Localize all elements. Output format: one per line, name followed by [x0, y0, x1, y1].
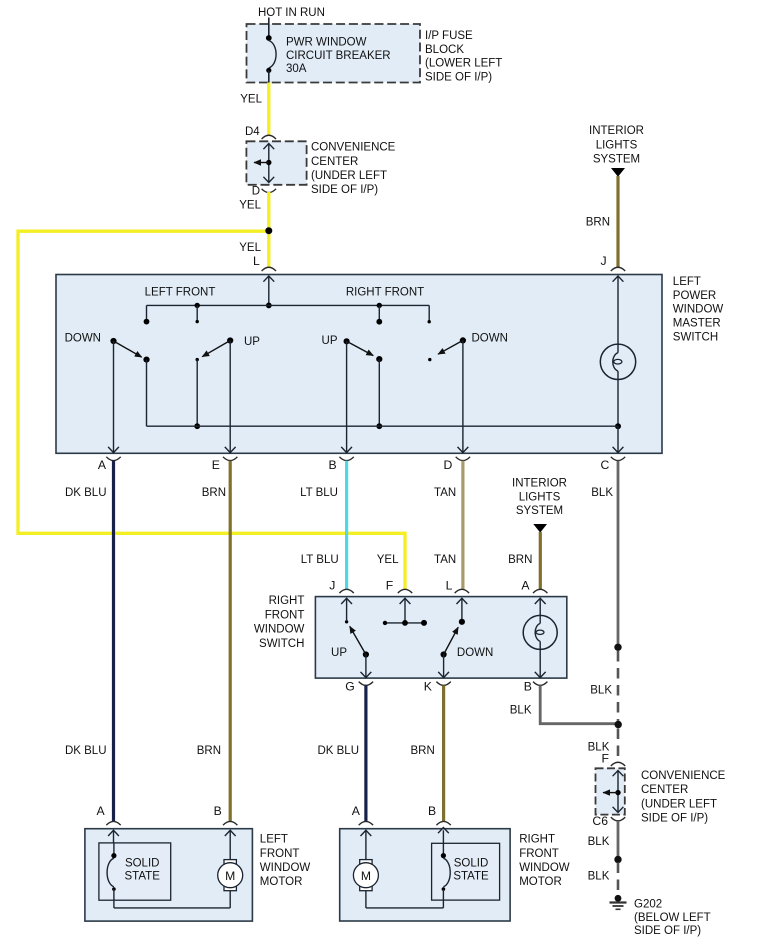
svg-text:WINDOW: WINDOW	[254, 624, 305, 636]
svg-text:J: J	[601, 254, 607, 268]
svg-text:LIGHTS: LIGHTS	[519, 491, 561, 503]
svg-text:C: C	[601, 458, 610, 472]
svg-text:MOTOR: MOTOR	[260, 876, 303, 888]
svg-text:INTERIOR: INTERIOR	[512, 478, 567, 490]
svg-text:FRONT: FRONT	[260, 848, 300, 860]
svg-text:TAN: TAN	[434, 554, 456, 566]
svg-text:UP: UP	[331, 647, 347, 659]
svg-text:RIGHT: RIGHT	[519, 834, 555, 846]
svg-text:DOWN: DOWN	[472, 333, 508, 345]
svg-text:RIGHT: RIGHT	[269, 595, 305, 607]
svg-text:SIDE OF I/P): SIDE OF I/P)	[311, 184, 378, 196]
svg-text:F: F	[602, 752, 609, 766]
svg-text:G: G	[345, 679, 354, 693]
svg-text:SIDE OF I/P): SIDE OF I/P)	[641, 813, 708, 825]
svg-text:UP: UP	[244, 336, 260, 348]
svg-text:WINDOW: WINDOW	[673, 304, 724, 316]
svg-text:DOWN: DOWN	[457, 647, 493, 659]
svg-text:SYSTEM: SYSTEM	[593, 154, 640, 166]
svg-text:L: L	[446, 578, 453, 592]
svg-text:DK BLU: DK BLU	[65, 745, 107, 757]
svg-text:STATE: STATE	[125, 871, 161, 883]
svg-text:CONVENIENCE: CONVENIENCE	[311, 142, 396, 154]
svg-text:BLOCK: BLOCK	[425, 44, 464, 56]
svg-text:YEL: YEL	[240, 93, 262, 105]
svg-text:30A: 30A	[286, 63, 307, 75]
svg-text:BLK: BLK	[591, 487, 613, 499]
svg-text:SOLID: SOLID	[454, 858, 489, 870]
svg-text:FRONT: FRONT	[265, 609, 305, 621]
svg-text:BRN: BRN	[586, 217, 610, 229]
svg-text:(UNDER LEFT: (UNDER LEFT	[641, 798, 717, 810]
svg-text:LT BLU: LT BLU	[301, 554, 339, 566]
svg-text:F: F	[386, 578, 393, 592]
svg-text:G202: G202	[634, 899, 662, 911]
svg-text:HOT IN RUN: HOT IN RUN	[258, 7, 325, 19]
svg-text:E: E	[212, 458, 220, 472]
svg-text:A: A	[521, 578, 530, 592]
svg-text:TAN: TAN	[434, 487, 456, 499]
svg-text:WINDOW: WINDOW	[260, 862, 311, 874]
svg-text:DOWN: DOWN	[65, 333, 101, 345]
svg-text:M: M	[225, 869, 235, 883]
svg-text:K: K	[424, 679, 432, 693]
svg-text:MASTER: MASTER	[673, 318, 721, 330]
svg-text:M: M	[361, 869, 371, 883]
svg-text:BRN: BRN	[508, 554, 532, 566]
svg-text:SYSTEM: SYSTEM	[516, 505, 563, 517]
svg-text:STATE: STATE	[453, 871, 489, 883]
svg-text:B: B	[524, 679, 532, 693]
svg-text:B: B	[214, 804, 222, 818]
svg-text:CENTER: CENTER	[641, 784, 688, 796]
svg-text:(LOWER LEFT: (LOWER LEFT	[425, 58, 502, 70]
svg-text:UP: UP	[322, 335, 338, 347]
svg-text:(BELOW LEFT: (BELOW LEFT	[634, 912, 711, 924]
svg-text:A: A	[352, 804, 361, 818]
svg-text:B: B	[428, 804, 436, 818]
svg-text:D: D	[444, 458, 453, 472]
svg-text:INTERIOR: INTERIOR	[589, 125, 644, 137]
svg-text:BLK: BLK	[590, 685, 612, 697]
svg-text:J: J	[329, 578, 335, 592]
svg-text:B: B	[329, 458, 337, 472]
svg-text:D4: D4	[245, 126, 260, 138]
svg-text:FRONT: FRONT	[519, 848, 559, 860]
svg-text:D: D	[252, 186, 260, 198]
svg-text:LT BLU: LT BLU	[300, 487, 338, 499]
svg-text:L: L	[253, 254, 260, 268]
svg-text:DK BLU: DK BLU	[317, 745, 359, 757]
svg-text:SOLID: SOLID	[125, 858, 160, 870]
svg-text:YEL: YEL	[239, 200, 261, 212]
svg-text:A: A	[98, 458, 107, 472]
svg-text:(UNDER LEFT: (UNDER LEFT	[311, 170, 387, 182]
svg-text:LEFT FRONT: LEFT FRONT	[145, 286, 216, 298]
svg-text:CONVENIENCE: CONVENIENCE	[641, 770, 726, 782]
svg-text:BLK: BLK	[588, 836, 610, 848]
svg-text:BRN: BRN	[202, 487, 226, 499]
svg-text:PWR WINDOW: PWR WINDOW	[286, 37, 367, 49]
svg-text:A: A	[97, 804, 106, 818]
svg-text:BLK: BLK	[510, 705, 532, 717]
svg-text:YEL: YEL	[377, 554, 399, 566]
svg-text:I/P FUSE: I/P FUSE	[425, 30, 473, 42]
svg-text:SWITCH: SWITCH	[673, 331, 718, 343]
svg-text:CENTER: CENTER	[311, 156, 358, 168]
svg-text:WINDOW: WINDOW	[519, 862, 570, 874]
svg-text:BRN: BRN	[411, 745, 435, 757]
svg-text:SIDE OF I/P): SIDE OF I/P)	[425, 72, 492, 84]
svg-text:MOTOR: MOTOR	[519, 876, 562, 888]
svg-text:BRN: BRN	[197, 745, 221, 757]
svg-text:LIGHTS: LIGHTS	[596, 139, 638, 151]
svg-text:SIDE OF I/P): SIDE OF I/P)	[634, 925, 701, 937]
svg-text:LEFT: LEFT	[673, 276, 701, 288]
svg-text:RIGHT FRONT: RIGHT FRONT	[346, 286, 424, 298]
svg-text:BLK: BLK	[588, 871, 610, 883]
svg-text:CIRCUIT BREAKER: CIRCUIT BREAKER	[286, 50, 391, 62]
svg-text:SWITCH: SWITCH	[259, 638, 304, 650]
svg-text:DK BLU: DK BLU	[65, 487, 107, 499]
svg-text:C6: C6	[592, 814, 608, 828]
svg-text:LEFT: LEFT	[260, 834, 288, 846]
svg-text:YEL: YEL	[239, 242, 261, 254]
svg-text:POWER: POWER	[673, 290, 716, 302]
